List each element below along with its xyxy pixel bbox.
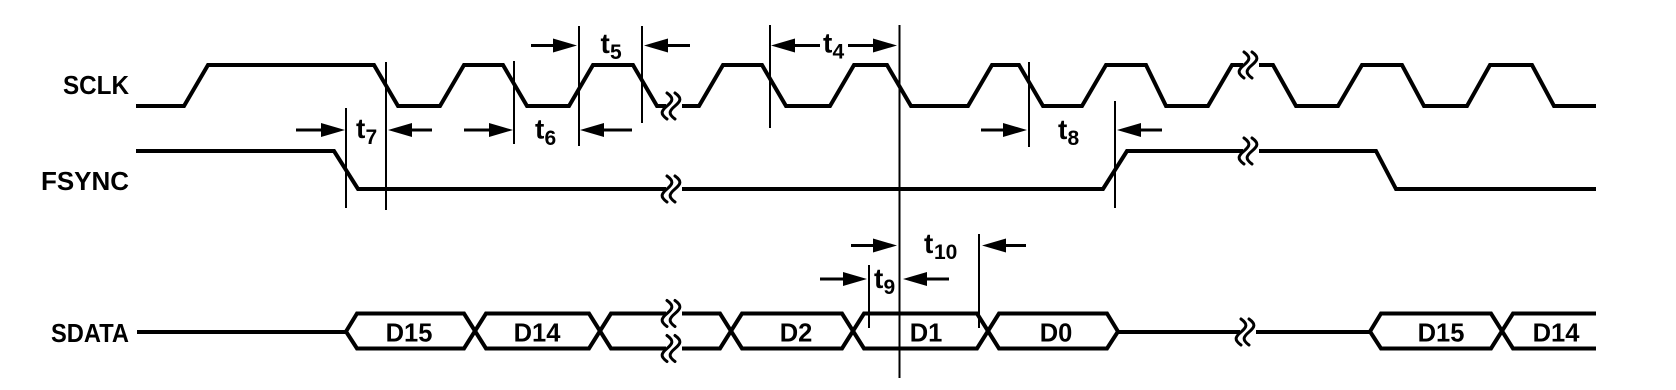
- svg-text:t: t: [823, 28, 832, 59]
- wire SDATA mid line: [1118, 330, 1370, 334]
- svg-text:SCLK: SCLK: [63, 70, 129, 100]
- wire SCLK waveform: [136, 65, 1596, 106]
- dimension line t9 left: [868, 265, 870, 328]
- svg-text:5: 5: [610, 41, 622, 64]
- dimension line t8 right at FSYNC rise: [1114, 101, 1116, 208]
- break SCLK low: [662, 93, 682, 119]
- svg-text:t: t: [535, 114, 544, 145]
- svg-text:D14: D14: [1533, 320, 1581, 348]
- dimension line at FSYNC fall (t7 left): [345, 108, 347, 208]
- svg-text:t: t: [601, 28, 610, 59]
- svg-text:FSYNC: FSYNC: [41, 166, 129, 196]
- arrow t5 left: [531, 39, 577, 53]
- svg-text:D15: D15: [1418, 320, 1465, 348]
- svg-text:9: 9: [884, 276, 896, 299]
- break SDATA bus bottom edge: [662, 336, 682, 362]
- arrow t4 left (points left at line): [771, 39, 820, 53]
- wire FSYNC waveform: [136, 151, 1596, 189]
- dimension line at SCLK fall (t7 right): [385, 62, 387, 210]
- break FSYNC low: [662, 176, 682, 202]
- svg-text:7: 7: [366, 126, 378, 149]
- arrow t6 left: [464, 123, 513, 137]
- break SCLK high: [1239, 52, 1259, 78]
- dimension line t5 left / t6 right: [578, 26, 580, 146]
- svg-text:6: 6: [545, 127, 557, 150]
- arrow t7 right: [388, 123, 432, 137]
- dimension line t8 left: [1028, 62, 1030, 147]
- svg-text:D2: D2: [780, 320, 813, 348]
- dimension line t6 left: [513, 61, 515, 144]
- break SDATA mid line: [1236, 319, 1256, 345]
- arrow t4 right (points right at line): [848, 39, 897, 53]
- arrow t8 right: [1117, 123, 1162, 137]
- bus SDATA right group outline (D15 D14): [1370, 314, 1596, 349]
- dimension line t5 right: [641, 26, 643, 123]
- arrow t9 right: [903, 272, 949, 286]
- dimension line t4 right / t9-t10 common (long): [899, 25, 901, 378]
- svg-text:t: t: [874, 263, 883, 294]
- arrow t10 left: [851, 239, 897, 253]
- arrow t7 left: [296, 123, 345, 137]
- wire SDATA lead-in line: [137, 330, 346, 334]
- arrow t10 right: [982, 239, 1026, 253]
- svg-text:t: t: [1058, 114, 1067, 145]
- svg-text:8: 8: [1068, 127, 1080, 150]
- svg-text:t: t: [356, 113, 365, 144]
- arrow t5 right: [644, 39, 690, 53]
- svg-text:4: 4: [833, 41, 845, 64]
- svg-text:SDATA: SDATA: [51, 318, 129, 348]
- break FSYNC high: [1239, 138, 1259, 164]
- arrow t6 right: [580, 123, 632, 137]
- svg-text:D1: D1: [910, 320, 943, 348]
- dimension line t4 left: [769, 25, 771, 128]
- dimension line t10 right: [978, 234, 980, 328]
- svg-text:t: t: [924, 228, 933, 259]
- svg-text:10: 10: [934, 241, 957, 264]
- arrow t8 left: [981, 123, 1027, 137]
- svg-text:D0: D0: [1040, 320, 1073, 348]
- svg-text:D15: D15: [386, 320, 433, 348]
- svg-text:D14: D14: [514, 320, 562, 348]
- arrow t9 left: [820, 272, 867, 286]
- bus SDATA left group outline (D15 D14 break D2 D1 D0): [346, 314, 1118, 349]
- break SDATA bus top edge: [662, 301, 682, 327]
